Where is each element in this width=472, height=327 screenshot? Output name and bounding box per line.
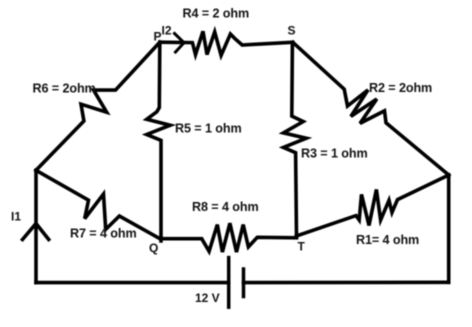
wire P to S top with resistor R4 [160, 31, 293, 55]
arrowhead I1 [23, 224, 49, 240]
svg-text:Q: Q [149, 241, 158, 255]
svg-text:12 V: 12 V [195, 291, 220, 305]
svg-text:I2: I2 [162, 24, 172, 38]
svg-text:R5 = 1 ohm: R5 = 1 ohm [175, 122, 242, 136]
svg-text:R4 = 2 ohm: R4 = 2 ohm [183, 7, 250, 21]
wire Q to T with resistor R8 [161, 223, 297, 252]
right vertical wire [447, 175, 451, 282]
svg-text:R8 = 4 ohm: R8 = 4 ohm [192, 200, 259, 214]
resistor R6 diagonal wire W to P [36, 42, 160, 170]
resistor R2 diagonal wire S to E [293, 42, 449, 175]
svg-text:R2 = 2ohm: R2 = 2ohm [369, 81, 432, 95]
battery long plate [227, 258, 231, 308]
bottom-left wire to battery [36, 281, 229, 285]
svg-text:P: P [154, 30, 162, 44]
svg-text:R3 = 1 ohm: R3 = 1 ohm [301, 147, 368, 161]
svg-text:T: T [298, 240, 306, 254]
svg-text:S: S [288, 24, 296, 38]
arrowhead I2 [175, 34, 185, 53]
left vertical wire with current I1 [34, 170, 38, 282]
wire S down to T with resistor R3 [283, 42, 306, 236]
battery short plate [242, 269, 246, 297]
bottom-right wire from battery [244, 280, 449, 284]
svg-text:R6 = 2ohm: R6 = 2ohm [33, 82, 96, 96]
wire P down to Q with resistor R5 [147, 42, 171, 241]
resistor R7 diagonal wire W to Q [36, 170, 161, 239]
svg-text:R7 = 4 ohm: R7 = 4 ohm [70, 226, 137, 240]
svg-text:R1= 4 ohm: R1= 4 ohm [356, 233, 419, 247]
svg-text:I1: I1 [11, 210, 21, 224]
resistor R1 diagonal wire T to E [297, 175, 449, 236]
